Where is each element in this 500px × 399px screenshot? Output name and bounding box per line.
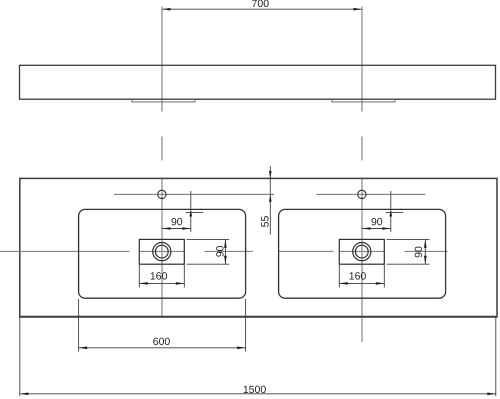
left drain inner circle xyxy=(155,245,168,258)
dimension 55 (top edge to faucet line) xyxy=(269,166,271,235)
plan bottom edge thickening xyxy=(20,315,497,317)
left faucet hole xyxy=(158,190,166,198)
svg-text:160: 160 xyxy=(349,270,367,282)
horizontal centerline through faucet holes xyxy=(114,193,425,195)
svg-text:90: 90 xyxy=(171,216,183,228)
dimension 90 horizontal right (faucet offset) xyxy=(362,191,403,232)
front elevation bar xyxy=(20,65,496,99)
right drain outer circle xyxy=(353,243,371,261)
right faucet hole xyxy=(358,190,366,198)
svg-text:90: 90 xyxy=(371,216,383,228)
svg-text:55: 55 xyxy=(260,216,272,228)
plan view countertop outline xyxy=(20,178,497,317)
centerline left faucet (vertical) xyxy=(161,7,163,317)
right basin xyxy=(279,209,446,298)
svg-text:600: 600 xyxy=(153,336,171,348)
svg-text:90: 90 xyxy=(215,245,227,257)
main horizontal centerline through drains xyxy=(0,250,448,252)
svg-text:160: 160 xyxy=(150,270,168,282)
svg-text:1500: 1500 xyxy=(243,384,267,396)
right drain inner circle xyxy=(355,245,368,258)
centerline right faucet (vertical) xyxy=(361,7,363,343)
svg-text:700: 700 xyxy=(252,0,270,10)
left notch under bar xyxy=(132,99,195,102)
dimension 90 vertical right (drain height) xyxy=(387,239,430,264)
dimension 600 (basin width) xyxy=(79,299,246,352)
dimension 90 horizontal left (faucet offset) xyxy=(162,191,203,232)
dimension 90 vertical left (drain height) xyxy=(187,239,230,264)
left drain outer circle xyxy=(153,243,171,261)
left basin xyxy=(79,209,246,298)
dimension 160 left (drain width) xyxy=(139,265,184,288)
dimension 700 xyxy=(162,8,362,10)
right notch under bar xyxy=(332,99,395,102)
svg-text:90: 90 xyxy=(413,246,425,258)
dimension 1500 (overall width) xyxy=(20,318,496,397)
left drain rectangle xyxy=(139,239,184,264)
right drain rectangle xyxy=(339,239,384,264)
dimension 160 right (drain width) xyxy=(339,265,384,288)
